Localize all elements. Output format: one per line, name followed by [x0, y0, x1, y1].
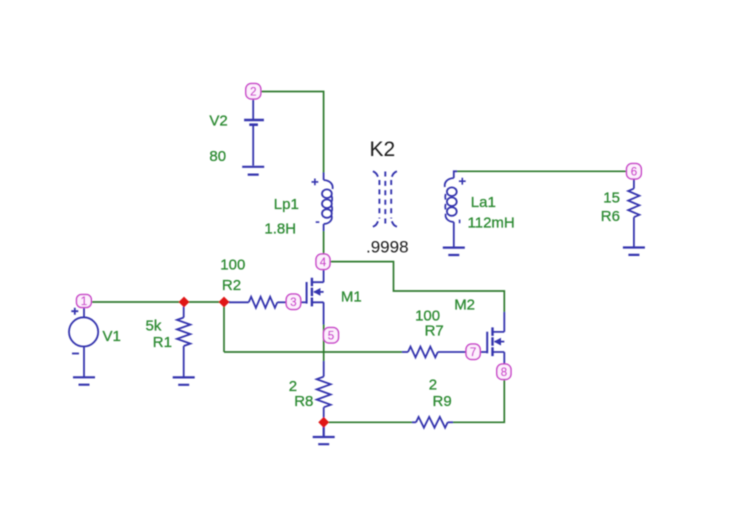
MOSFET M2 [480, 312, 504, 364]
svg-text:R8: R8 [294, 393, 313, 410]
svg-text:R9: R9 [433, 393, 452, 410]
svg-text:100: 100 [220, 257, 245, 274]
svg-text:R1: R1 [153, 334, 172, 351]
svg-text:M2: M2 [454, 297, 475, 314]
Lp1 plus mark [312, 179, 320, 223]
junction dot at R8 bottom [318, 417, 329, 428]
node 3 bubble [286, 294, 301, 310]
svg-text:5: 5 [328, 331, 334, 343]
La1 plus mark [459, 178, 466, 223]
svg-text:112mH: 112mH [468, 214, 515, 231]
MOSFET M1 [301, 270, 324, 325]
node 4 bubble [316, 254, 330, 270]
La1 minus mark [459, 220, 461, 224]
node 7 bubble [466, 344, 480, 360]
svg-text:2: 2 [250, 87, 256, 99]
svg-text:V1: V1 [103, 328, 121, 345]
node 2 bubble [246, 84, 261, 100]
wire node0: R8 junction to R9 [329, 421, 413, 423]
ground under R8 junction [313, 426, 335, 444]
wire node6: La1 to R6 [457, 170, 627, 172]
junction dot at R2 branch [219, 297, 230, 308]
resistor R9 [412, 417, 453, 428]
ground under La1 [443, 248, 465, 255]
wire node1 vertical drop at x=224 [223, 302, 225, 352]
inductor Lp1 [322, 173, 333, 232]
voltage source V1 [69, 308, 98, 378]
wire node5: M1 source to R8 [323, 325, 325, 362]
inductor La1 [445, 171, 457, 246]
M2 bulk arrow [494, 338, 501, 346]
svg-text:5k: 5k [146, 317, 162, 334]
svg-text:1.8H: 1.8H [264, 220, 296, 237]
svg-text:1: 1 [81, 296, 87, 308]
ground under R6 [623, 248, 645, 255]
svg-text:R6: R6 [601, 208, 620, 225]
svg-text:M1: M1 [341, 289, 362, 306]
svg-text:3: 3 [290, 297, 296, 309]
svg-text:V2: V2 [209, 113, 227, 130]
resistor R7 [402, 347, 466, 358]
resistor R1 [177, 307, 190, 378]
svg-text:Lp1: Lp1 [274, 196, 299, 213]
resistor R2 [229, 297, 286, 308]
node 1 bubble [77, 295, 92, 309]
wire node4: Lp1 bottom to node4 bubble [323, 231, 325, 254]
battery V2 [244, 100, 264, 166]
wire node2: V2 to Lp1 [261, 92, 324, 174]
svg-text:.9998: .9998 [366, 238, 409, 257]
ground under R1 [173, 377, 195, 384]
svg-text:80: 80 [209, 148, 226, 165]
wire node8: R9 to M2 source [453, 380, 504, 423]
resistor R8 [317, 361, 331, 418]
ground under V1 [73, 377, 95, 384]
svg-text:2: 2 [429, 377, 437, 394]
node 8 bubble [497, 364, 511, 380]
resistor R6 [628, 180, 639, 248]
M1 bulk arrow [313, 288, 320, 296]
svg-text:6: 6 [631, 167, 637, 179]
svg-text:R7: R7 [425, 323, 444, 340]
svg-text:4: 4 [320, 257, 327, 269]
svg-text:8: 8 [501, 367, 507, 379]
svg-text:7: 7 [470, 347, 476, 359]
node 6 bubble [627, 164, 642, 180]
coupling K2 [373, 171, 397, 227]
svg-text:15: 15 [603, 190, 620, 207]
wire node1: V1 to R2 [92, 301, 231, 303]
Lp1 minus mark [316, 221, 320, 223]
svg-text:K2: K2 [370, 138, 396, 161]
wire node1 horizontal to R7 [224, 351, 402, 353]
ground under V2 [242, 167, 264, 175]
junction dot at R1 top [179, 297, 190, 308]
node 5 bubble [324, 328, 339, 344]
wire node4: to M2 drain [330, 262, 504, 312]
svg-text:La1: La1 [471, 194, 496, 211]
svg-text:R2: R2 [222, 277, 241, 294]
